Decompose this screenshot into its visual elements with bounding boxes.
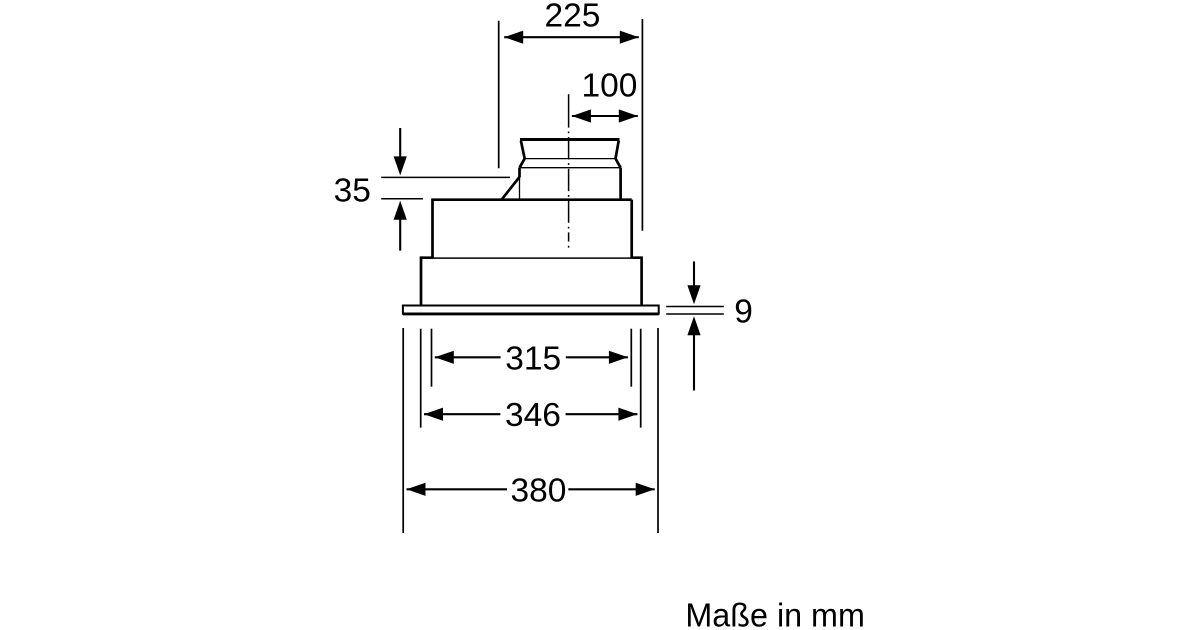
svg-text:35: 35 [334, 172, 371, 209]
svg-text:225: 225 [545, 0, 601, 35]
dimension 380: extension line left [402, 328, 404, 533]
dimension 380: dimension line with arrows [407, 483, 655, 496]
dimension 225: extension line left [498, 21, 500, 169]
svg-text:9: 9 [734, 293, 753, 330]
dimension 225: extension line right [641, 19, 643, 231]
hood upper box (315 wide) [433, 200, 632, 259]
svg-text:380: 380 [511, 473, 567, 510]
middle box top edge (thin, across) [433, 257, 632, 259]
hood bottom plate (380 wide panel) [403, 306, 659, 314]
dimension 9: upper arrow (down) [687, 261, 700, 304]
hidden collar edge (thin, behind slope) [519, 177, 521, 200]
sloped top panel [502, 177, 520, 200]
dimension 225: dimension line with arrows [504, 31, 639, 44]
svg-text:100: 100 [582, 68, 638, 105]
centerline (dash-dot) [568, 94, 570, 247]
duct collar top section (100 dia stub) [520, 140, 620, 159]
dimension 9: leader line lower [666, 313, 724, 315]
duct collar flare [520, 159, 621, 168]
dimension 9: leader line upper [666, 306, 724, 308]
svg-text:315: 315 [505, 340, 561, 377]
dimension 346: extension line right [640, 329, 642, 428]
dimension 346: dimension line with arrows [424, 408, 637, 421]
svg-text:346: 346 [505, 397, 561, 434]
dimension 35: lower arrow (up) [394, 201, 407, 251]
dimension 346: extension line left [420, 329, 422, 428]
dimension 35: upper arrow (down) [394, 128, 407, 175]
dimension 315: extension line right [630, 329, 632, 387]
dimension 9: lower arrow (up) [687, 316, 700, 390]
svg-text:Maße in mm: Maße in mm [685, 598, 865, 630]
dimension 315: dimension line with arrows [435, 351, 628, 364]
dimension 35: leader line lower [381, 198, 423, 200]
duct collar lower section [520, 168, 621, 200]
hood middle box (346 wide) [421, 258, 642, 306]
dimension 380: extension line right [657, 328, 659, 533]
dimension 315: extension line left [431, 329, 433, 387]
dimension 35: leader line upper [381, 176, 510, 178]
dimension 100: dimension line with arrows [572, 109, 638, 122]
